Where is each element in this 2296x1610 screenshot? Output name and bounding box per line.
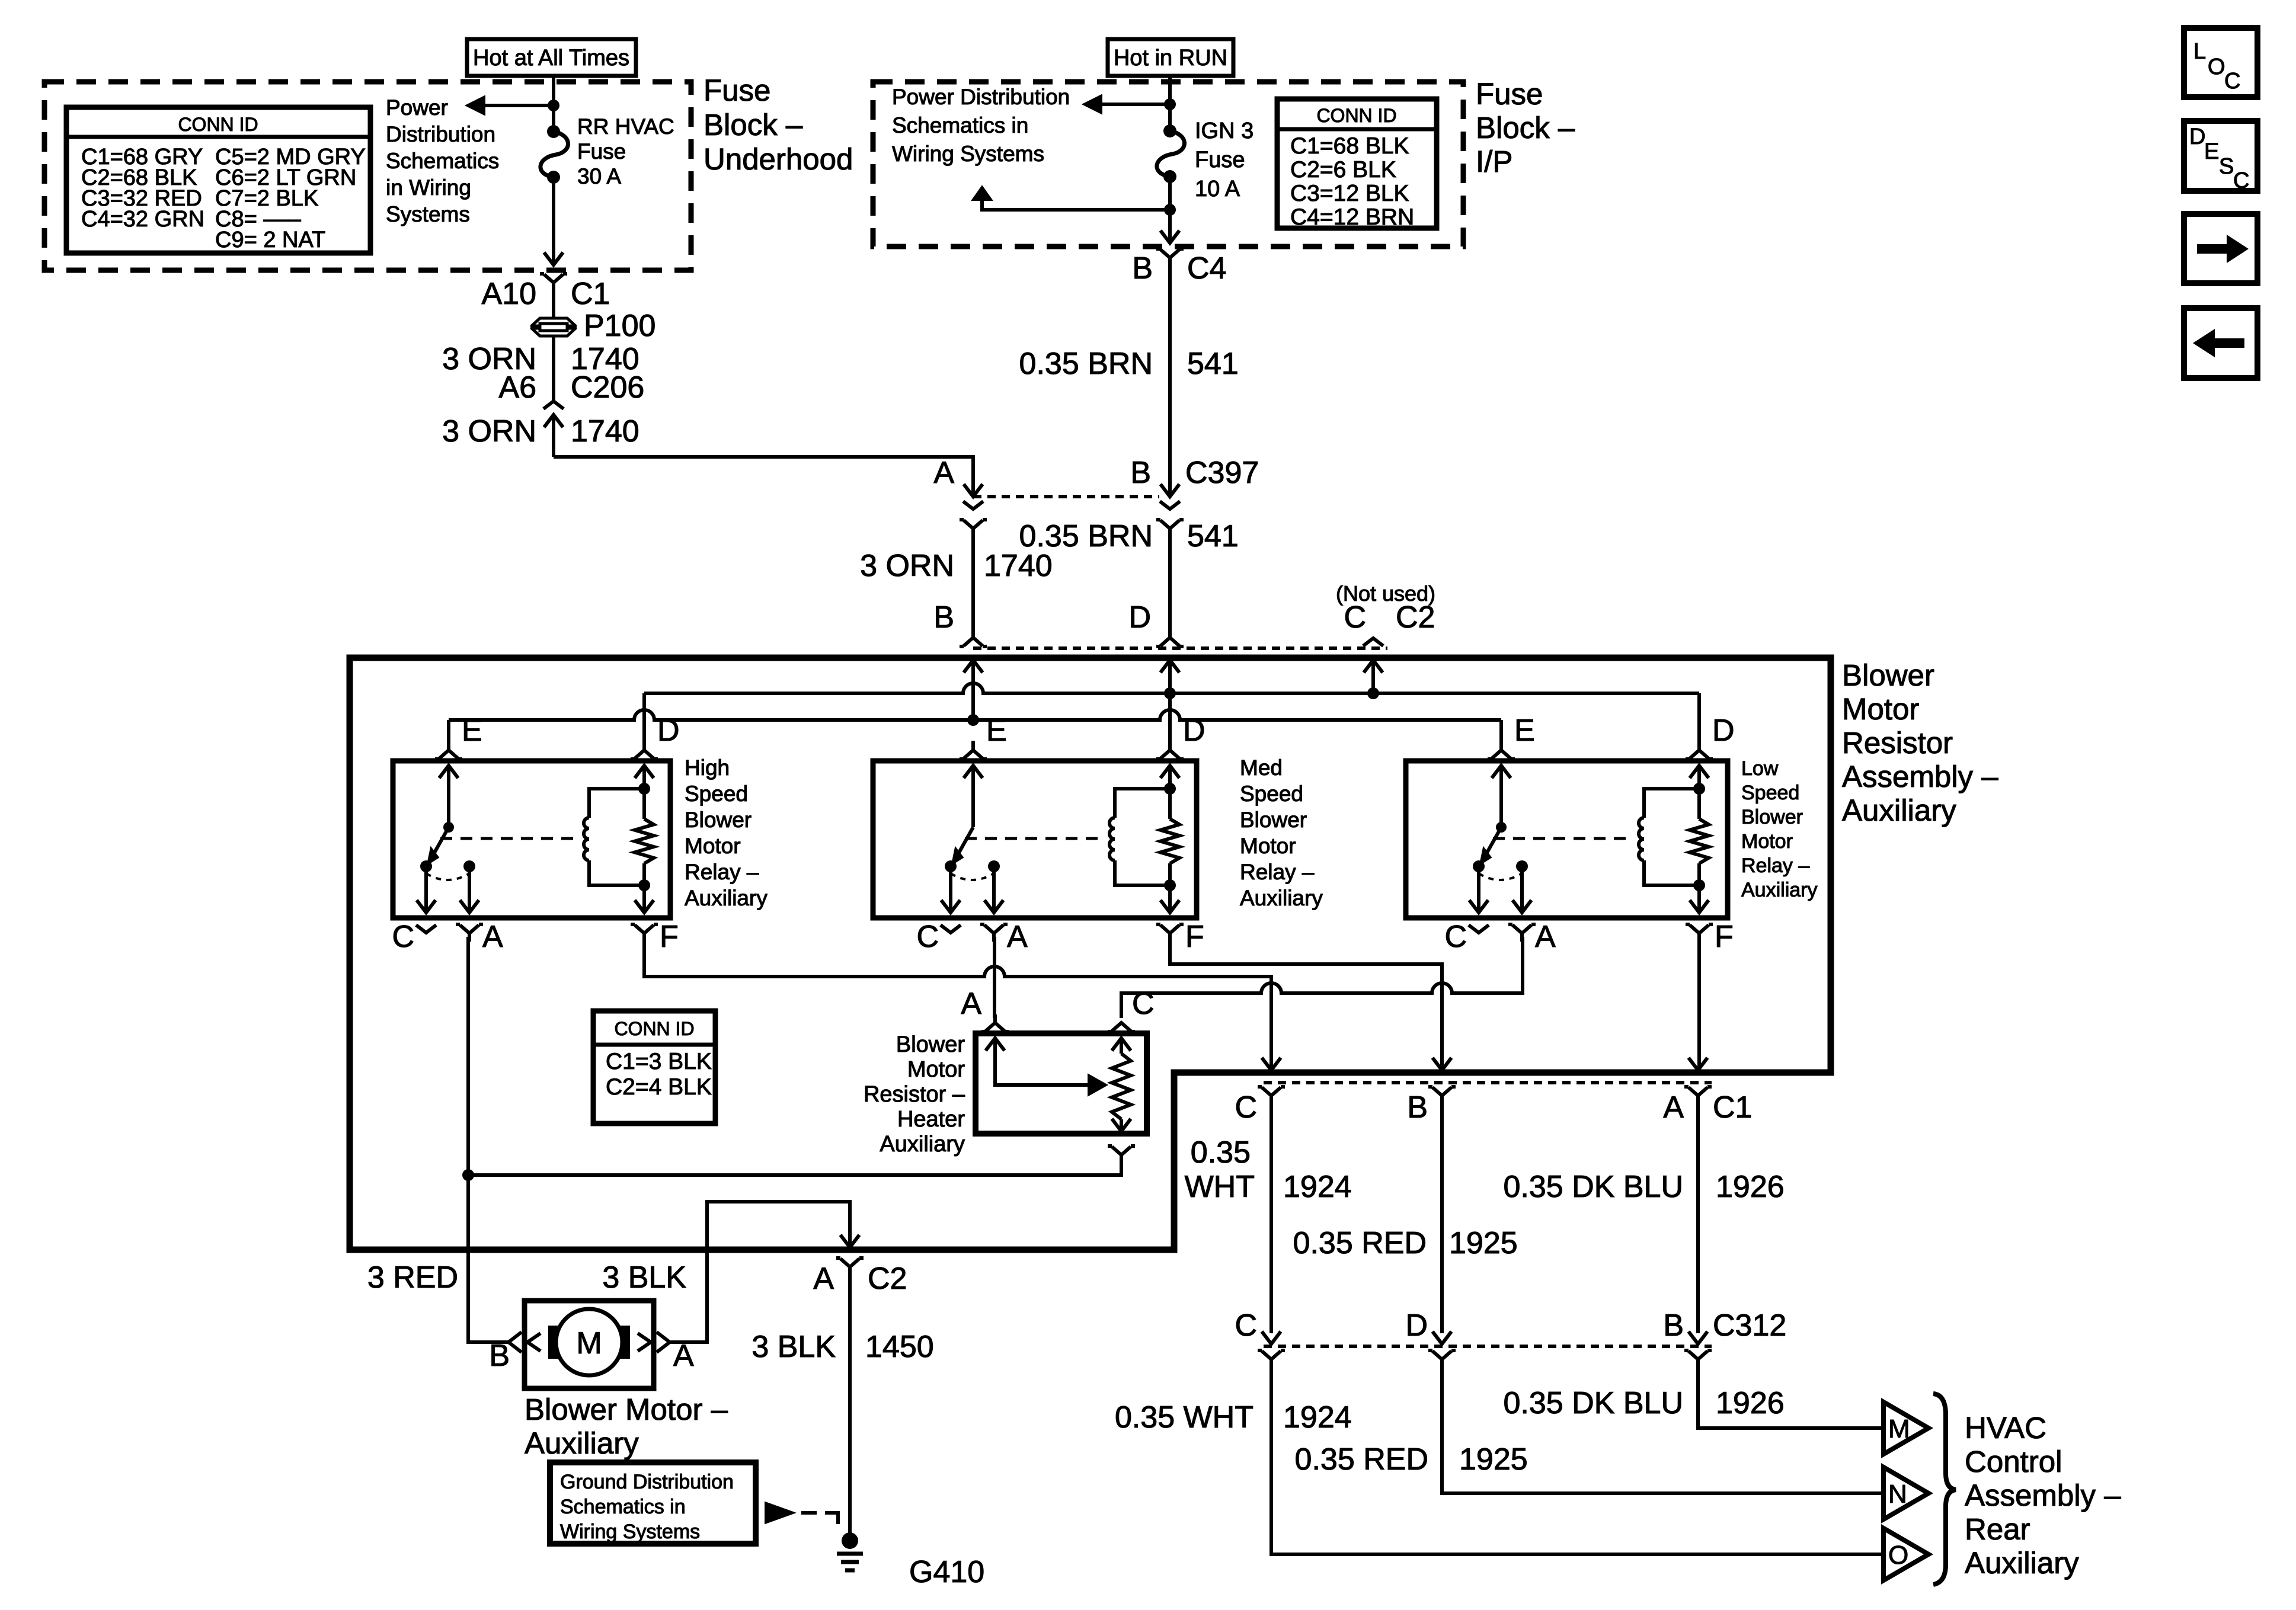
svg-text:Control: Control bbox=[1965, 1445, 2062, 1478]
resistor-heater resistor element bbox=[1112, 1038, 1131, 1051]
svg-text:Block –: Block – bbox=[1476, 111, 1575, 145]
svg-text:C: C bbox=[2224, 69, 2240, 94]
wire bus2 to relay1 pin E bbox=[447, 720, 450, 741]
resistor-heater pin C connector bbox=[1108, 1030, 1112, 1033]
connector B/C4 below fuse block I/P bbox=[1156, 247, 1160, 251]
svg-text:Systems: Systems bbox=[386, 202, 470, 226]
svg-text:C2: C2 bbox=[868, 1262, 907, 1296]
svg-text:Fuse: Fuse bbox=[1195, 148, 1245, 172]
svg-text:Resistor: Resistor bbox=[1842, 726, 1953, 760]
relay bottom pin F bbox=[631, 923, 635, 926]
blower motor symbol M bbox=[548, 1326, 569, 1359]
svg-text:10 A: 10 A bbox=[1195, 177, 1240, 201]
svg-text:Blower: Blower bbox=[1741, 806, 1803, 828]
switch swing dashed arc bbox=[1479, 873, 1522, 880]
switch contact A bbox=[1516, 860, 1528, 872]
svg-text:Blower: Blower bbox=[1240, 808, 1307, 832]
svg-text:Schematics: Schematics bbox=[386, 149, 499, 173]
svg-text:Blower: Blower bbox=[896, 1032, 965, 1057]
svg-text:B: B bbox=[1130, 456, 1151, 490]
wire contact C to box bottom bbox=[1477, 866, 1480, 913]
svg-text:C: C bbox=[1444, 920, 1467, 954]
feed wire D into assembly bbox=[1160, 660, 1179, 673]
switch contact C bbox=[1473, 860, 1485, 872]
blower motor pin B connectors bbox=[509, 1332, 522, 1352]
svg-text:Hot in RUN: Hot in RUN bbox=[1114, 46, 1227, 71]
svg-text:CONN ID: CONN ID bbox=[614, 1018, 694, 1039]
svg-text:C2=4 BLK: C2=4 BLK bbox=[606, 1074, 712, 1100]
svg-text:3 BLK: 3 BLK bbox=[602, 1260, 686, 1295]
svg-text:Heater: Heater bbox=[897, 1107, 965, 1132]
svg-text:E: E bbox=[1514, 713, 1535, 748]
svg-text:D: D bbox=[657, 713, 680, 748]
svg-text:Relay –: Relay – bbox=[1240, 860, 1315, 884]
relay pin D connector bbox=[1156, 757, 1160, 761]
junction dot bbox=[548, 100, 559, 111]
connector C2 dashed line at assembly top bbox=[973, 646, 1387, 650]
svg-text:541: 541 bbox=[1187, 347, 1239, 381]
wire bus1 to relay3 pin D bbox=[1697, 693, 1701, 741]
C1 pin C bbox=[1262, 1058, 1281, 1070]
svg-text:541: 541 bbox=[1187, 519, 1239, 553]
svg-text:C: C bbox=[1235, 1308, 1257, 1343]
svg-text:A: A bbox=[813, 1262, 834, 1296]
svg-text:M: M bbox=[1888, 1414, 1910, 1443]
svg-text:1925: 1925 bbox=[1449, 1226, 1518, 1260]
relay coil actuator dashed link bbox=[440, 837, 576, 840]
fuse IGN 3 10A bbox=[1163, 124, 1176, 137]
svg-text:0.35 RED: 0.35 RED bbox=[1295, 1442, 1428, 1477]
wire relay2 F to connector C1 pin B (0.35 RED) bbox=[1170, 937, 1442, 1070]
svg-text:E: E bbox=[2204, 139, 2219, 164]
wire resistor to box bottom bbox=[642, 885, 646, 913]
switch lever bbox=[957, 827, 973, 857]
connector id table CONN ID (resistor assembly) bbox=[593, 1011, 715, 1124]
svg-text:Fuse: Fuse bbox=[577, 139, 626, 164]
arrow to power distribution (left) bbox=[466, 96, 485, 115]
wire contact C to box bottom bbox=[424, 866, 428, 913]
relay pin E connector bbox=[435, 757, 439, 761]
switch swing dashed arc bbox=[951, 873, 994, 880]
svg-text:Assembly –: Assembly – bbox=[1965, 1478, 2121, 1512]
blower motor resistor assembly box outline bbox=[350, 658, 1831, 1250]
svg-text:C: C bbox=[1235, 1090, 1257, 1125]
svg-text:3 RED: 3 RED bbox=[367, 1260, 458, 1295]
relay pin E internal wire and switch bbox=[1492, 766, 1511, 778]
feed branch arrow up (power distribution) bbox=[972, 186, 992, 200]
svg-text:F: F bbox=[1715, 920, 1734, 954]
svg-text:1740: 1740 bbox=[571, 414, 639, 449]
wire fuse to fuse block edge bbox=[552, 177, 555, 265]
relay bottom pin F bbox=[1156, 923, 1160, 926]
in-line connector C397 dashed line bbox=[973, 495, 1159, 498]
HVAC terminal O bbox=[1884, 1528, 1929, 1580]
relay bottom pin A bbox=[1508, 923, 1512, 926]
relay bottom pin C bbox=[416, 925, 436, 933]
relay bottom pin C bbox=[1469, 925, 1489, 933]
svg-text:Schematics in: Schematics in bbox=[892, 113, 1028, 137]
relay bottom pin A bbox=[980, 923, 984, 926]
relay box Med speed bbox=[873, 761, 1197, 918]
svg-text:A: A bbox=[1663, 1090, 1684, 1125]
relay box Low speed bbox=[1406, 761, 1728, 918]
svg-text:3 BLK: 3 BLK bbox=[752, 1330, 836, 1364]
svg-text:3 ORN: 3 ORN bbox=[860, 549, 954, 583]
svg-text:IGN 3: IGN 3 bbox=[1195, 119, 1253, 143]
relay coil actuator dashed link bbox=[1493, 837, 1631, 840]
relay coil bbox=[1693, 783, 1705, 795]
svg-text:Motor: Motor bbox=[1741, 830, 1793, 853]
relay pin D connector bbox=[1686, 757, 1690, 761]
svg-text:A: A bbox=[1535, 920, 1556, 954]
svg-text:Wiring Systems: Wiring Systems bbox=[560, 1521, 700, 1543]
svg-text:Auxiliary: Auxiliary bbox=[1240, 886, 1323, 910]
svg-text:(Not used): (Not used) bbox=[1336, 581, 1435, 606]
svg-text:A: A bbox=[1007, 920, 1028, 954]
svg-text:1925: 1925 bbox=[1459, 1442, 1528, 1477]
connector A10/C1 below fuse block bbox=[540, 272, 544, 276]
wire from Hot at All Times into fuse block bbox=[552, 76, 555, 132]
svg-text:C: C bbox=[392, 920, 414, 954]
wire from Hot in RUN into fuse block bbox=[1168, 76, 1172, 131]
relay pin D connector bbox=[631, 757, 635, 761]
relay box High speed bbox=[393, 761, 670, 918]
svg-text:C: C bbox=[1132, 987, 1155, 1021]
svg-text:C397: C397 bbox=[1185, 456, 1259, 490]
feed wire B into assembly bbox=[964, 660, 983, 673]
svg-text:C1: C1 bbox=[1713, 1090, 1752, 1125]
svg-text:Resistor –: Resistor – bbox=[864, 1082, 965, 1107]
relay pin E internal wire and switch bbox=[964, 766, 983, 778]
next page arrow box bbox=[2184, 214, 2257, 283]
svg-text:C1: C1 bbox=[571, 277, 610, 311]
relay bottom pin A bbox=[456, 923, 460, 926]
blower motor pin A connectors bbox=[657, 1332, 670, 1352]
svg-text:M: M bbox=[576, 1326, 602, 1361]
wire relay1 A to blower motor B (3 RED) bbox=[468, 937, 509, 1342]
svg-text:A10: A10 bbox=[481, 277, 536, 311]
previous page arrow box bbox=[2184, 308, 2257, 378]
svg-text:3 ORN: 3 ORN bbox=[442, 414, 536, 449]
blower motor resistor heater box bbox=[976, 1033, 1147, 1134]
svg-text:A: A bbox=[673, 1339, 694, 1373]
svg-text:N: N bbox=[1888, 1480, 1907, 1509]
svg-text:A: A bbox=[482, 920, 503, 954]
svg-text:B: B bbox=[489, 1339, 510, 1373]
resistor-heater pin A connector bbox=[981, 1030, 986, 1033]
relay resistor bbox=[1160, 766, 1179, 778]
svg-text:Assembly –: Assembly – bbox=[1842, 760, 1998, 793]
svg-text:Fuse: Fuse bbox=[703, 73, 770, 107]
svg-text:C4: C4 bbox=[1187, 251, 1226, 286]
C312 pin D bbox=[1432, 1331, 1451, 1344]
svg-text:P100: P100 bbox=[584, 309, 655, 343]
wire P100 to C206, 3 ORN 1740 bbox=[552, 336, 555, 402]
svg-text:1740: 1740 bbox=[984, 549, 1053, 583]
svg-text:Relay –: Relay – bbox=[1741, 854, 1809, 877]
blower motor - auxiliary box bbox=[525, 1301, 654, 1388]
svg-text:Ground Distribution: Ground Distribution bbox=[560, 1471, 734, 1493]
wire relay2 A to resistor-heater pin A bbox=[993, 937, 996, 1018]
wire blower motor A to ground connector C2 (3 BLK) bbox=[670, 1202, 850, 1342]
svg-text:RR HVAC: RR HVAC bbox=[577, 114, 674, 139]
svg-text:1926: 1926 bbox=[1716, 1386, 1785, 1420]
svg-text:0.35 DK BLU: 0.35 DK BLU bbox=[1504, 1386, 1684, 1420]
svg-text:A: A bbox=[933, 456, 954, 490]
svg-text:C206: C206 bbox=[571, 370, 644, 405]
resistor-heater bottom pin connector bbox=[1108, 1144, 1112, 1148]
wire contact C to box bottom bbox=[949, 866, 952, 913]
svg-text:O: O bbox=[2208, 55, 2225, 79]
svg-text:1926: 1926 bbox=[1716, 1170, 1785, 1204]
HVAC terminal M bbox=[1884, 1402, 1929, 1454]
relay pin E internal wire and switch bbox=[439, 766, 458, 778]
svg-text:Motor: Motor bbox=[1842, 692, 1919, 726]
HVAC terminal N bbox=[1884, 1467, 1929, 1519]
svg-text:I/P: I/P bbox=[1476, 145, 1512, 178]
svg-text:S: S bbox=[2219, 154, 2234, 179]
svg-text:D: D bbox=[1128, 600, 1151, 635]
svg-text:A: A bbox=[961, 987, 981, 1021]
svg-text:C2=6 BLK: C2=6 BLK bbox=[1290, 157, 1396, 183]
HVAC brace bbox=[1933, 1394, 1956, 1585]
svg-text:C: C bbox=[2233, 168, 2249, 193]
svg-text:0.35 BRN: 0.35 BRN bbox=[1019, 347, 1153, 381]
svg-text:Auxiliary: Auxiliary bbox=[880, 1132, 965, 1157]
C1 pin A bbox=[1689, 1058, 1707, 1070]
svg-text:Blower Motor –: Blower Motor – bbox=[525, 1393, 728, 1426]
wire resistor to box bottom bbox=[1697, 885, 1701, 913]
svg-text:30 A: 30 A bbox=[577, 164, 621, 188]
stub wire C (not used) into assembly bbox=[1364, 660, 1383, 673]
DESC reference box bbox=[2184, 121, 2257, 191]
relay coil bbox=[638, 783, 650, 795]
svg-text:G410: G410 bbox=[909, 1555, 984, 1589]
svg-text:D: D bbox=[1405, 1308, 1428, 1343]
C312 pin B bbox=[1689, 1331, 1707, 1344]
svg-text:O: O bbox=[1888, 1541, 1908, 1570]
switch contact A bbox=[463, 860, 475, 872]
wire resistor-heater pin C to relay3 A bbox=[1121, 937, 1523, 1018]
svg-text:Motor: Motor bbox=[1240, 834, 1296, 858]
svg-text:Power: Power bbox=[386, 95, 448, 120]
connector C312 dashed line bbox=[1264, 1345, 1712, 1348]
svg-text:Underhood: Underhood bbox=[703, 142, 853, 176]
fuse RR HVAC 30A bbox=[547, 125, 560, 138]
fuse block I/P dashed box bbox=[873, 82, 1463, 247]
wire resistor to box bottom bbox=[1168, 885, 1172, 913]
relay coil actuator dashed link bbox=[965, 837, 1102, 840]
svg-text:1450: 1450 bbox=[865, 1330, 934, 1364]
svg-text:B: B bbox=[1132, 251, 1153, 286]
svg-text:Fuse: Fuse bbox=[1476, 77, 1543, 111]
svg-text:D: D bbox=[1712, 713, 1735, 748]
svg-text:A6: A6 bbox=[498, 370, 536, 405]
switch lever bbox=[432, 827, 449, 857]
connector C1 dashed line bbox=[1264, 1081, 1712, 1084]
svg-text:Motor: Motor bbox=[907, 1057, 965, 1082]
connector id table CONN ID (fuse block underhood) bbox=[66, 107, 370, 253]
svg-text:Block –: Block – bbox=[703, 108, 803, 142]
svg-text:Auxiliary: Auxiliary bbox=[685, 886, 768, 910]
svg-text:F: F bbox=[1185, 920, 1204, 954]
svg-text:HVAC: HVAC bbox=[1965, 1411, 2046, 1445]
C1 pin B bbox=[1432, 1058, 1451, 1070]
svg-text:D: D bbox=[1183, 713, 1205, 748]
arrow to power distribution (right) bbox=[1083, 95, 1102, 114]
svg-text:B: B bbox=[933, 600, 954, 635]
label box Hot in RUN bbox=[1108, 39, 1233, 76]
svg-text:D: D bbox=[2189, 124, 2205, 149]
ground G410 bbox=[842, 1532, 858, 1549]
wire contact A to box bottom bbox=[468, 866, 471, 913]
C312 pin C bbox=[1262, 1331, 1281, 1344]
svg-text:C4=12 BRN: C4=12 BRN bbox=[1290, 204, 1414, 230]
fuse block underhood dashed box bbox=[44, 82, 691, 270]
LOC reference box bbox=[2184, 28, 2257, 97]
pass-through connector P100 bbox=[532, 318, 575, 326]
wire jog right to C397 A bbox=[554, 457, 973, 495]
wire relay3 F to connector C1 pin A (0.35 DK BLU) bbox=[1697, 937, 1701, 1070]
wire bus1 to relay1 pin D bbox=[642, 693, 646, 741]
svg-text:1924: 1924 bbox=[1283, 1170, 1352, 1204]
svg-text:C9= 2 NAT: C9= 2 NAT bbox=[215, 228, 325, 252]
svg-text:L: L bbox=[2193, 39, 2206, 64]
svg-text:Blower: Blower bbox=[685, 808, 752, 832]
relay bottom pin C bbox=[941, 925, 961, 933]
svg-text:Speed: Speed bbox=[1741, 782, 1799, 804]
svg-text:C1=68 BLK: C1=68 BLK bbox=[1290, 133, 1409, 159]
svg-text:CONN ID: CONN ID bbox=[1316, 105, 1396, 126]
svg-text:High: High bbox=[685, 756, 730, 780]
svg-text:C312: C312 bbox=[1713, 1308, 1786, 1343]
svg-text:0.35 DK BLU: 0.35 DK BLU bbox=[1504, 1170, 1684, 1204]
svg-text:E: E bbox=[986, 713, 1007, 748]
svg-text:Motor: Motor bbox=[685, 834, 741, 858]
svg-text:Med: Med bbox=[1240, 756, 1283, 780]
svg-text:C3=12 BLK: C3=12 BLK bbox=[1290, 181, 1409, 206]
svg-text:CONN ID: CONN ID bbox=[178, 114, 258, 135]
relay resistor bbox=[1690, 766, 1709, 778]
svg-text:B: B bbox=[1663, 1308, 1684, 1343]
resistor-heater internal wiper arrow bbox=[986, 1038, 1005, 1051]
svg-text:Auxiliary: Auxiliary bbox=[525, 1426, 639, 1460]
bus line 2 (battery feed) bbox=[449, 710, 1501, 720]
wire relay1 F to connector C1 pin C (0.35 WHT) bbox=[644, 937, 1271, 1070]
svg-text:Hot at All Times: Hot at All Times bbox=[473, 46, 629, 71]
svg-text:0.35: 0.35 bbox=[1191, 1135, 1251, 1170]
svg-text:B: B bbox=[1407, 1090, 1428, 1125]
relay bottom pin F bbox=[1686, 923, 1690, 926]
svg-text:WHT: WHT bbox=[1185, 1170, 1255, 1204]
ground distribution note box bbox=[550, 1462, 756, 1544]
svg-text:Low: Low bbox=[1741, 757, 1779, 780]
svg-text:Schematics in: Schematics in bbox=[560, 1496, 686, 1518]
svg-text:in Wiring: in Wiring bbox=[386, 175, 471, 200]
svg-text:0.35 RED: 0.35 RED bbox=[1293, 1226, 1427, 1260]
wire bus2 to relay3 pin E bbox=[1499, 720, 1503, 741]
wire resistor-heater bottom to motor branch bbox=[468, 1162, 1121, 1175]
label box Hot at All Times bbox=[467, 39, 636, 76]
svg-text:E: E bbox=[462, 713, 482, 748]
wire contact A to box bottom bbox=[992, 866, 996, 913]
svg-text:Auxiliary: Auxiliary bbox=[1741, 879, 1817, 901]
connector id table CONN ID (fuse block I/P) bbox=[1277, 99, 1437, 228]
svg-text:Rear: Rear bbox=[1965, 1512, 2030, 1546]
relay resistor bbox=[635, 766, 654, 778]
svg-text:C1=3 BLK: C1=3 BLK bbox=[606, 1049, 712, 1074]
relay pin E connector bbox=[1488, 757, 1492, 761]
relay pin E connector bbox=[960, 757, 964, 761]
svg-text:Auxiliary: Auxiliary bbox=[1842, 793, 1956, 827]
svg-text:C: C bbox=[916, 920, 939, 954]
svg-text:Speed: Speed bbox=[1240, 782, 1303, 806]
wire contact A to box bottom bbox=[1520, 866, 1524, 913]
switch contact A bbox=[988, 860, 1000, 872]
switch lever bbox=[1485, 827, 1501, 857]
svg-text:Distribution: Distribution bbox=[386, 122, 495, 146]
svg-text:1924: 1924 bbox=[1283, 1400, 1352, 1435]
svg-text:Wiring Systems: Wiring Systems bbox=[892, 142, 1044, 166]
svg-text:Auxiliary: Auxiliary bbox=[1965, 1546, 2079, 1580]
switch swing dashed arc bbox=[426, 873, 469, 880]
switch contact C bbox=[420, 860, 432, 872]
svg-text:F: F bbox=[660, 920, 679, 954]
svg-text:Speed: Speed bbox=[685, 782, 748, 806]
relay coil bbox=[1164, 783, 1176, 795]
svg-text:Relay –: Relay – bbox=[685, 860, 759, 884]
svg-text:Power Distribution: Power Distribution bbox=[892, 85, 1070, 109]
connector A/C2 at assembly bottom bbox=[836, 1256, 840, 1260]
svg-text:0.35 WHT: 0.35 WHT bbox=[1115, 1400, 1253, 1435]
svg-text:Blower: Blower bbox=[1842, 658, 1934, 692]
ground reference arrow and dashed link bbox=[765, 1502, 795, 1523]
switch contact C bbox=[945, 860, 957, 872]
svg-text:C4=32 GRN: C4=32 GRN bbox=[81, 207, 204, 232]
bus line 1 (ign feed) bbox=[644, 683, 1699, 693]
